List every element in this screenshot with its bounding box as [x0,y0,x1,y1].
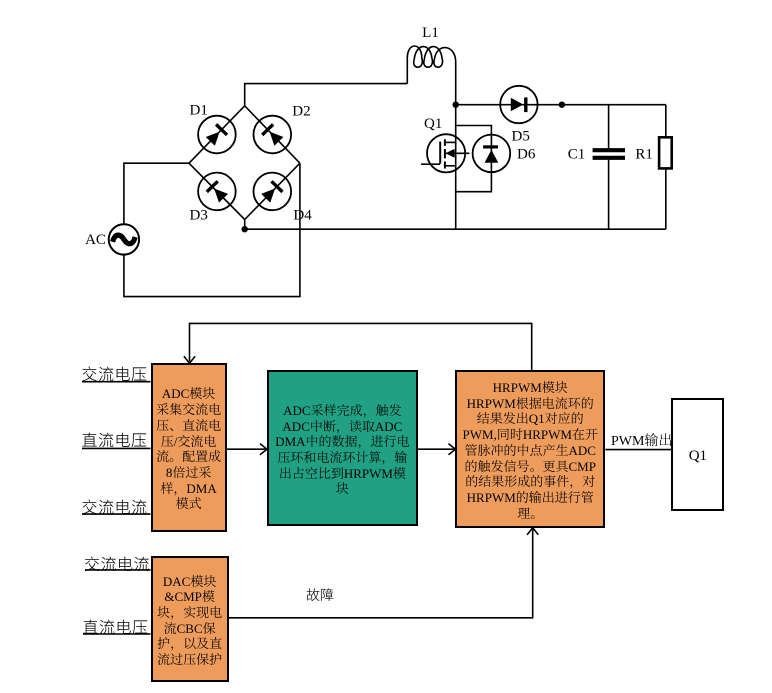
inductor L1 [407,46,455,105]
label fault [306,585,334,605]
capacitor C1 [593,105,625,230]
svg-text:D3: D3 [190,207,208,223]
wire fault DAC block to HRPWM bottom arrow [229,528,539,618]
svg-text:D1: D1 [190,103,208,119]
wire bridge edge D4 (bottom vertex to right vertex) [245,163,300,219]
label D3 [190,207,208,223]
svg-text:D6: D6 [517,147,536,163]
svg-text:AC: AC [85,232,106,248]
node bottom vertex junction [242,220,248,233]
label D2 [292,104,310,120]
label D4 [293,207,312,223]
diode D6 (body diode) [473,135,511,173]
block Q1 output [671,398,724,511]
node L1/Q1/D5 junction [453,102,459,108]
wire stub AC voltage input [82,381,151,383]
svg-text:D4: D4 [293,207,312,223]
transistor Q1 (MOSFET) [421,134,469,172]
label D1 [190,103,208,119]
wire Q1 trunk [455,105,457,230]
wire bridge edge D2 (top vertex to right vertex) [245,106,300,163]
label DC voltage 2 [83,614,149,638]
label R1 [635,147,653,163]
diode D5 [500,86,537,123]
label L1 [422,25,439,41]
label AC voltage 1 [82,361,148,385]
wire AC top to bridge left vertex [124,163,189,224]
wire stub AC current input (DAC block) [85,569,151,571]
wire green block to HRPWM block arrow [418,444,455,455]
diode D1 [190,108,243,161]
wire top vertex to inductor [245,84,408,106]
block DAC/CMP module (orange) [151,556,229,681]
wire feedback HRPWM top to ADC block top [184,323,532,370]
label DC voltage 1 [82,427,148,451]
wire bottom rail [245,228,666,230]
svg-text:D5: D5 [512,128,530,144]
svg-text:L1: L1 [422,25,439,41]
wire stub DC voltage input (DAC block) [83,633,151,635]
block HRPWM module (orange) [455,370,605,528]
diode D2 [246,108,299,161]
svg-text:C1: C1 [568,147,586,163]
svg-text:R1: R1 [635,147,653,163]
wire HRPWM block to Q1 box [605,449,671,451]
label PWM output [611,430,672,450]
label Q1 [424,116,442,132]
resistor R1 [659,105,672,230]
label AC current 1 [82,494,148,518]
wire output top rail through D5 [456,104,666,106]
wire stub AC current input [82,513,151,515]
block ADC interrupt processing (green) [267,370,418,526]
wire stub DC voltage input [82,447,151,449]
diode D3 [190,165,243,218]
label AC [85,232,106,248]
label AC current 2 [84,551,150,575]
wire bridge edge D3 (left vertex to bottom vertex) [189,163,245,219]
wire AC bottom to bridge right vertex [124,163,300,296]
AC source [109,224,139,254]
svg-text:Q1: Q1 [424,116,442,132]
label D5 [512,128,530,144]
block ADC module (orange) [151,363,227,531]
label C1 [568,147,586,163]
wire ADC block to green block arrow [227,444,267,455]
node D5/C1 junction [559,102,565,108]
diode D4 [246,165,299,218]
wire D6 branch [456,126,492,192]
label D6 [517,147,536,163]
wire bridge edge D1 (left vertex to top vertex) [189,106,245,163]
svg-text:D2: D2 [292,104,310,120]
